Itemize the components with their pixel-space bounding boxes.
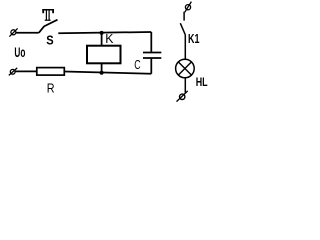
- switch S lever: [39, 20, 58, 33]
- wire resistor R to capacitor branch (bottom rail): [64, 72, 151, 74]
- svg-text:K1: K1: [188, 32, 200, 46]
- wire capacitor to bottom rail: [150, 59, 152, 74]
- svg-text:HL: HL: [196, 75, 208, 89]
- wire lamp HL to bottom-right terminal: [184, 78, 186, 93]
- wire from switch S to capacitor branch corner: [58, 32, 151, 33]
- wire bottom-left terminal to resistor R: [15, 70, 37, 72]
- svg-text:K: K: [105, 31, 114, 46]
- svg-text:S: S: [46, 33, 53, 47]
- wire capacitor branch vertical top: [150, 32, 152, 52]
- svg-text:Uo: Uo: [14, 44, 25, 60]
- lamp HL: [176, 59, 195, 78]
- switch S manual actuator T symbol: [42, 9, 54, 21]
- wire relay coil K to bottom rail: [101, 63, 103, 72]
- svg-text:C: C: [134, 57, 140, 72]
- wire top-right terminal to contact K1: [183, 12, 185, 21]
- wire contact K1 to lamp HL: [184, 35, 186, 59]
- terminal bottom-left: [9, 68, 17, 76]
- capacitor C bottom plate: [143, 57, 161, 59]
- terminal bottom-right: [177, 91, 188, 102]
- wire from top-left terminal to switch S: [16, 32, 39, 34]
- svg-text:R: R: [47, 81, 55, 96]
- resistor R: [37, 68, 65, 76]
- terminal top-right: [185, 2, 192, 13]
- junction node top: [100, 31, 104, 35]
- capacitor C top plate: [143, 52, 161, 54]
- terminal top-left: [9, 28, 17, 36]
- relay coil K: [87, 46, 121, 64]
- relay contact K1 lever: [180, 23, 185, 35]
- junction node bottom: [100, 71, 104, 75]
- wire junction to relay coil K: [101, 33, 103, 46]
